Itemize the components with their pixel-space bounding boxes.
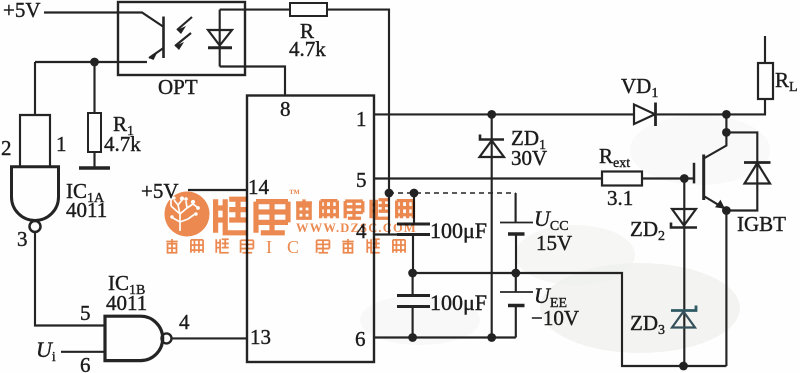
wire IC1A output to IC1B input 5 [35,232,105,326]
svg-text:5: 5 [80,301,91,325]
wire IC1B output to IC pin 13 [172,337,248,339]
svg-text:3: 3 [17,227,28,251]
wire ZD1 column [491,114,493,337]
battery UCC plus plate [500,222,533,224]
watermark big text WeiKu [216,199,288,233]
svg-text:100μF: 100μF [430,290,487,315]
wire +5V to optocoupler collector [44,13,163,27]
wire dashed node to C1 top [413,193,415,223]
wire R1 to ground [93,152,95,167]
wire LED cathode to IC pin 8 [220,67,285,96]
svg-text:2: 2 [1,136,12,160]
capacitor C2 (100uF) top plate [397,294,430,297]
junction dot mid rail left [408,269,417,278]
wire gate node to ZD2 [683,179,685,228]
svg-text:100μF: 100μF [430,218,487,243]
junction dot gate node [680,174,689,183]
svg-text:13: 13 [250,325,271,349]
IC1B output bubble [162,333,172,343]
wire mid rail to C2 [412,273,414,295]
svg-text:UCC: UCC [534,206,569,234]
light arrow 1 [177,17,192,30]
svg-text:4: 4 [179,310,190,334]
wire node A down to R1 [93,62,95,113]
junction dot dashed left [385,189,394,198]
svg-text:6: 6 [355,327,366,351]
battery UEE minus plate [508,304,525,308]
battery UCC minus plate [508,232,525,236]
phototransistor emitter with arrow [149,48,164,58]
resistor Rext [602,172,642,186]
junction dot collector top [722,110,731,119]
IGBT gate bar [693,163,696,184]
wire pin 1 to VD1 [374,113,634,115]
junction dot diode branch [722,128,731,137]
svg-text:I: I [266,237,272,257]
svg-text:4.7k: 4.7k [104,132,141,156]
wire node A down to gate inputs [34,62,36,115]
resistor R [290,3,327,16]
battery UEE feed [515,273,517,292]
battery UEE plus plate [500,291,533,293]
wire collector node [725,114,727,132]
mid rail wire [413,273,727,366]
dashed control wire [389,192,516,194]
svg-text:Ui: Ui [36,337,56,365]
junction dot emitter [722,206,731,215]
svg-text:30V: 30V [511,146,547,170]
zener ZD2 [672,209,696,226]
svg-text:4011: 4011 [106,291,147,315]
junction dot dashed mid [410,189,419,198]
load resistor RL [758,63,773,99]
svg-text:1: 1 [56,132,67,156]
svg-text:™: ™ [289,188,300,200]
IGBT emitter with arrow [704,196,725,209]
wire to freewheel diode [726,132,757,183]
svg-text:4011: 4011 [66,198,107,222]
svg-text:1: 1 [356,107,367,131]
wire LED anode to resistor R [220,9,290,11]
wire freewheel diode to emitter [726,184,757,211]
nand gate IC1B body [105,316,163,360]
wire UEE to pin 6 rail [515,306,517,338]
wire C2 to pin 6 rail [412,307,414,338]
wire VD1 to RL branch [657,99,765,114]
junction dot mid rail right [511,269,520,278]
junction dot pin6 rail ZD1 [487,333,496,342]
svg-text:VD1: VD1 [621,74,658,101]
wire Ui to IC1B input 6 [61,351,105,353]
svg-text:5: 5 [356,168,367,192]
wire ZD2 to ZD3 to rail [683,228,685,367]
OPT LED anode lead [219,10,221,48]
IGBT collector lead [704,132,727,158]
watermark logo circle [165,192,210,237]
resistor R1 [88,113,101,152]
optocoupler OPT box U-OPT [118,2,245,75]
light arrow 2 [175,33,191,46]
freewheel diode (anti-parallel) [744,161,771,164]
IC1A output bubble [30,221,41,232]
capacitor C1 bottom plate [397,233,430,236]
battery UCC feed [515,193,517,222]
svg-text:14: 14 [248,175,270,199]
svg-text:15V: 15V [536,231,572,255]
load resistor RL lead [764,36,766,63]
svg-text:WWW.DZSC.COM: WWW.DZSC.COM [296,221,417,235]
svg-text:3.1: 3.1 [607,186,633,210]
wire Rext to gate [642,177,694,179]
capacitor C2 bottom plate [397,305,430,308]
svg-text:6: 6 [80,353,91,373]
wire +5V to pin 14 [188,189,247,191]
ground bar [79,166,110,170]
svg-text:8: 8 [280,97,291,121]
driver IC box [247,96,374,363]
diode VD1 [634,105,655,125]
svg-text:ZD2: ZD2 [630,217,665,244]
watermark logo and text [165,188,417,257]
svg-text:OPT: OPT [158,75,198,99]
watermark slogan row [166,239,253,253]
junction dot ZD1 top [487,110,496,119]
wire UCC to mid rail [515,234,517,273]
svg-text:RL: RL [775,68,798,95]
wire C1 to mid rail [412,235,414,274]
wire emitter down to rail [725,211,727,367]
svg-text:4.7k: 4.7k [289,37,326,61]
phototransistor base bar inside OPT [162,17,165,59]
zener ZD3 [671,306,696,311]
OPT LED cathode lead [219,46,221,67]
wire R to vertical feed [327,10,389,234]
capacitor C1 (100uF) top plate [397,223,430,226]
svg-text:IGBT: IGBT [737,212,786,236]
pin 6 rail wire [374,336,516,338]
junction dot pin6 rail C2 [408,333,417,342]
OPT LED triangle [208,30,232,46]
wire emitter to left (node A) [35,61,147,63]
wire pin 5 to Rext [374,177,602,179]
IC1A input rectangle (pins 2,1) [20,115,50,167]
watermark text electronics market [296,199,413,218]
svg-text:+5V: +5V [3,0,41,22]
svg-text:C: C [287,237,299,257]
junction node A dot [90,58,99,67]
OPT LED cathode bar [208,46,232,49]
zener ZD1 [480,135,504,140]
svg-text:Rext: Rext [599,144,630,171]
IGBT body bar [702,155,705,201]
wire pin 4 to C1 bottom plate [374,233,397,235]
scan wash background blobs [360,115,770,353]
junction dot bottom rail ZD3 [679,362,688,371]
nand gate IC1A body [12,167,59,221]
svg-text:−10V: −10V [531,306,579,330]
